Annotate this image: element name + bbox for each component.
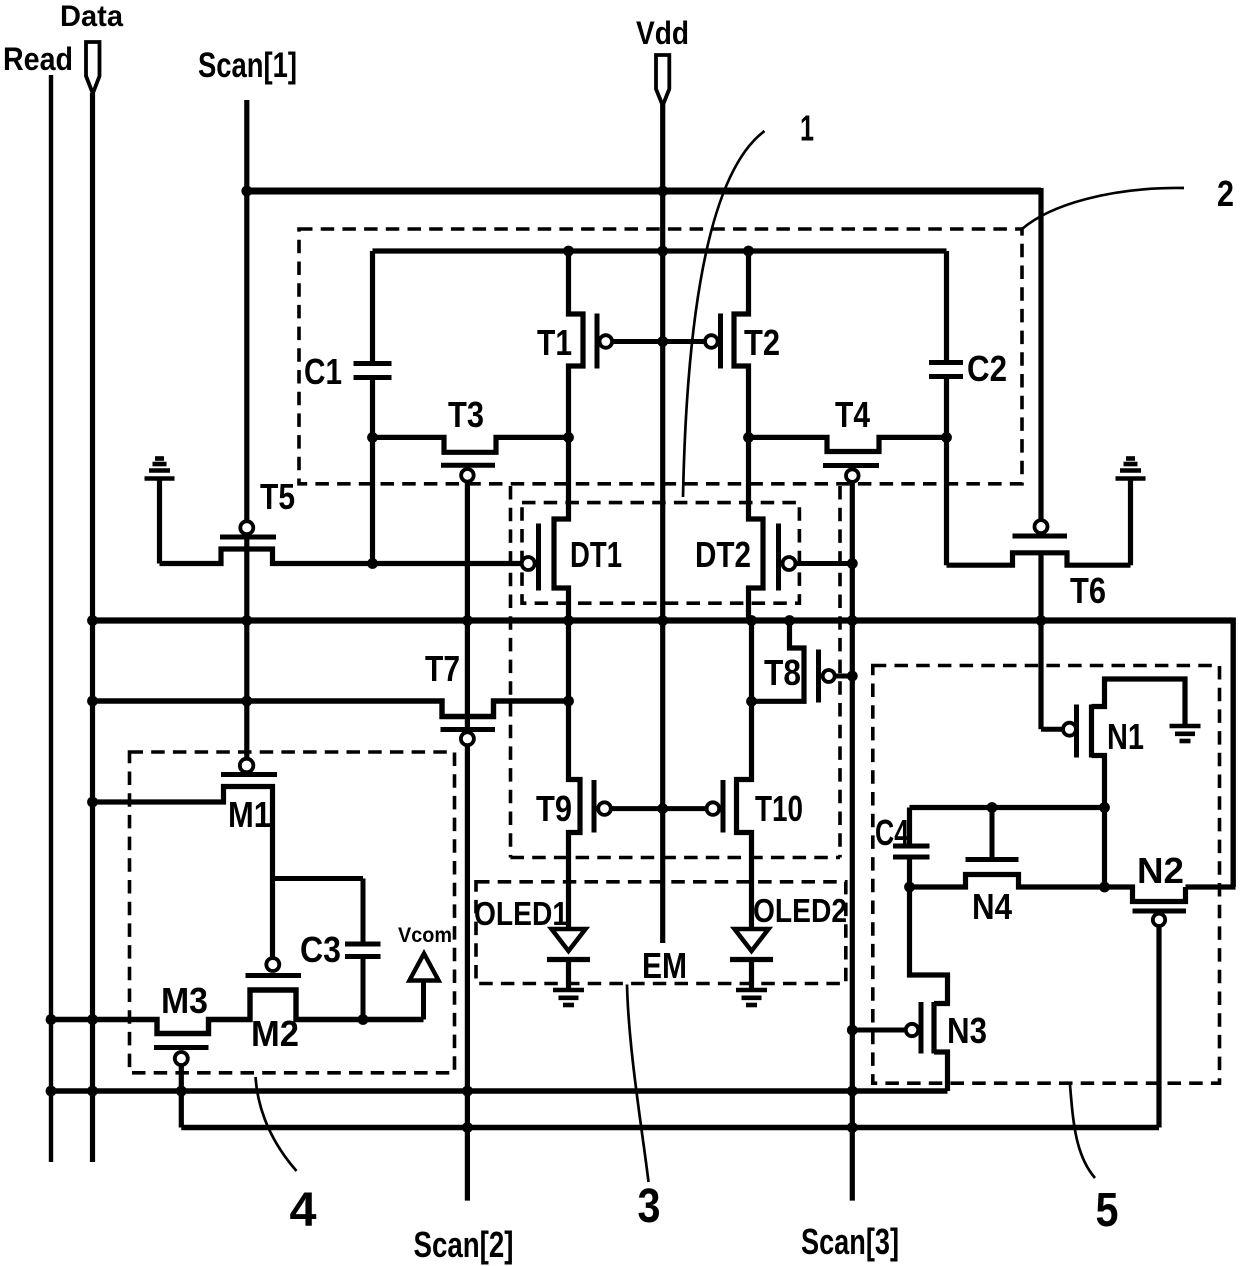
capacitor C4 bbox=[893, 844, 930, 849]
transistor T6 gate circle bbox=[1035, 520, 1048, 533]
node junction M row x Data bbox=[87, 1014, 98, 1025]
svg-text:DT1: DT1 bbox=[570, 534, 622, 575]
svg-text:C2: C2 bbox=[967, 348, 1007, 389]
wire Scan[1] vertical upper segment bbox=[244, 100, 249, 522]
transistor M2 gate bbox=[266, 958, 279, 971]
wire left ground stem bbox=[157, 481, 162, 564]
node junction bus1 x Data bbox=[87, 615, 98, 626]
node junction M1 lead x Data bbox=[87, 797, 98, 808]
svg-text:Scan[2]: Scan[2] bbox=[414, 1224, 514, 1265]
transistor N3 gate lead bbox=[852, 1028, 906, 1033]
wire right vertical from top rail to T6 gate bbox=[1038, 188, 1043, 520]
wire T1-T2 gate row bbox=[612, 339, 705, 344]
node junction rail1 x Data bbox=[87, 1086, 98, 1097]
node junction Scan[1] x top rail bbox=[241, 186, 252, 197]
transistor M3 gate bbox=[154, 1045, 209, 1050]
transistor T3 gate bbox=[441, 463, 495, 468]
transistor T4 gate bbox=[823, 463, 879, 468]
transistor T8 bbox=[752, 621, 805, 702]
wire C1 bottom to T5 row bbox=[370, 378, 375, 566]
dashed box block 3 right edge bbox=[838, 486, 842, 858]
wire Vdd top rail bbox=[244, 188, 1041, 195]
svg-text:3: 3 bbox=[638, 1180, 661, 1233]
wire first horizontal bus bbox=[93, 617, 1234, 623]
node junction Vdd on top line bbox=[657, 246, 668, 257]
transistor N1 channel bbox=[1089, 705, 1094, 758]
node junction N1 source x N row bbox=[1099, 882, 1110, 893]
svg-text:T10: T10 bbox=[755, 788, 803, 829]
svg-text:Scan[3]: Scan[3] bbox=[801, 1221, 899, 1262]
transistor T4 channel row bbox=[749, 437, 947, 451]
dashed box around OLED1 OLED2 bbox=[476, 882, 846, 984]
svg-text:1: 1 bbox=[800, 108, 814, 149]
svg-text:N3: N3 bbox=[947, 1010, 987, 1051]
transistor T5 gate bbox=[220, 535, 276, 540]
capacitor C3 bbox=[345, 942, 381, 947]
terminal Vdd input pennant bbox=[656, 55, 669, 106]
transistor T1 bbox=[569, 251, 584, 437]
node junction bus1 x DT1 leg bbox=[563, 615, 574, 626]
node junction gates x Vdd line bbox=[657, 336, 668, 347]
wire Data vertical line bbox=[90, 93, 95, 1162]
node junction bus1 x EM bbox=[657, 615, 668, 626]
svg-text:OLED2: OLED2 bbox=[753, 892, 847, 929]
ground under OLED1 bbox=[553, 988, 584, 993]
svg-text:C4: C4 bbox=[875, 812, 909, 853]
node junction bus1 x T6 leg bbox=[1036, 615, 1047, 626]
diode OLED2 bbox=[735, 929, 769, 951]
svg-text:C1: C1 bbox=[304, 351, 342, 392]
dashed box block 3 left edge bbox=[509, 486, 513, 858]
svg-text:M3: M3 bbox=[161, 980, 208, 1021]
wire Read vertical line bbox=[49, 75, 53, 1162]
svg-text:T5: T5 bbox=[260, 476, 295, 517]
wire M row with M3 and M2 channels bbox=[51, 990, 424, 1034]
node junction T9/T10 gates x EM line bbox=[657, 803, 668, 814]
node junction bus2 x T9 branch bbox=[563, 696, 574, 707]
leader line for label 5 bbox=[1070, 1085, 1095, 1178]
wire T6 to right ground stem bbox=[1128, 481, 1133, 566]
ground at N1 bbox=[1170, 724, 1201, 729]
node junction N1 source x C4 row bbox=[1099, 802, 1110, 813]
svg-text:Vcom: Vcom bbox=[398, 924, 452, 947]
node junction bus1 x Scan[1] bbox=[241, 615, 252, 626]
wire T8 gate lead bbox=[835, 674, 853, 679]
dashed box block 2 bbox=[299, 229, 1022, 484]
node junction N4 gate x C4 row bbox=[987, 802, 998, 813]
ground under OLED2 bbox=[736, 988, 767, 993]
wire C3 bottom lead bbox=[361, 957, 366, 1020]
node junction rail1 x Scan[2] bbox=[462, 1086, 473, 1097]
wire DT2 gate lead to Scan[3] bbox=[796, 561, 853, 566]
svg-text:4: 4 bbox=[290, 1184, 317, 1237]
transistor T5 channel row bbox=[160, 549, 522, 564]
dashed box block 1 around DT1 DT2 bbox=[522, 503, 799, 604]
node junction bus1 x DT2 leg bbox=[746, 615, 757, 626]
node junction bus1 x T8 stub bbox=[784, 615, 795, 626]
wire right edge to N2 lead bbox=[1186, 884, 1236, 889]
wire C1 top branch bbox=[370, 251, 375, 364]
node junction C2/T4 row bbox=[941, 432, 952, 443]
node junction rail2 x Scan[3] bbox=[847, 1122, 858, 1133]
svg-text:T2: T2 bbox=[744, 322, 780, 363]
wire right edge vertical of bus bbox=[1230, 618, 1235, 888]
terminal Vcom bbox=[421, 981, 426, 1020]
wire inner block top line bbox=[373, 248, 947, 253]
wire lower rail 1 bbox=[51, 1088, 948, 1093]
transistor N1 gate bbox=[1063, 723, 1076, 736]
capacitor C1 bbox=[354, 361, 392, 366]
svg-text:T7: T7 bbox=[425, 648, 460, 689]
ground chassis left bbox=[145, 476, 175, 481]
wire T6 center down to N1 gate bbox=[1038, 553, 1043, 729]
wire C3 top lead bbox=[361, 879, 366, 945]
transistor T7 gate bbox=[441, 727, 496, 732]
wire C4 top row bbox=[910, 805, 1105, 810]
node junction T8 source x T10 branch bbox=[746, 696, 757, 707]
svg-text:EM: EM bbox=[642, 945, 687, 986]
transistor T10 bbox=[737, 621, 752, 930]
node junction Vdd x top rail bbox=[657, 186, 668, 197]
transistor N3 gate bar bbox=[919, 1002, 924, 1054]
svg-text:T6: T6 bbox=[1070, 570, 1106, 611]
node junction M row x Read bbox=[46, 1014, 57, 1025]
svg-text:T4: T4 bbox=[835, 394, 870, 435]
wire M1 drain branch to C3 bbox=[273, 876, 364, 881]
wire Scan[1] vertical through T5 down to M1 gate bbox=[244, 534, 249, 759]
transistor T6 gate bar bbox=[1013, 534, 1068, 539]
transistor N4 gate bbox=[990, 808, 995, 860]
leader line for label 4 bbox=[256, 1077, 297, 1171]
leader line for label 1 bbox=[683, 131, 765, 497]
transistor DT2 bbox=[749, 437, 764, 620]
svg-text:5: 5 bbox=[1096, 1184, 1119, 1237]
svg-text:C3: C3 bbox=[300, 929, 341, 970]
svg-text:N2: N2 bbox=[1137, 850, 1184, 891]
transistor T6 channel row bbox=[947, 553, 1131, 565]
svg-text:T8: T8 bbox=[764, 652, 801, 693]
svg-text:DT2: DT2 bbox=[695, 534, 751, 575]
transistor T9 bbox=[569, 621, 581, 930]
ground chassis right bbox=[1116, 476, 1146, 481]
node junction T1 drain on top line bbox=[563, 246, 574, 257]
wire Scan[2] vertical bbox=[465, 481, 470, 732]
svg-text:N1: N1 bbox=[1107, 716, 1144, 757]
node junction C1/T3 row bbox=[367, 432, 378, 443]
terminal Data input pennant bbox=[86, 42, 100, 94]
wire N1 gate lead bbox=[1041, 727, 1063, 732]
svg-text:Scan[1]: Scan[1] bbox=[198, 46, 297, 85]
transistor T2 bbox=[734, 251, 749, 437]
svg-text:N4: N4 bbox=[972, 886, 1012, 927]
svg-text:OLED1: OLED1 bbox=[474, 895, 568, 932]
node junction rail1 x M3 stem bbox=[176, 1086, 187, 1097]
diode OLED1 bbox=[552, 929, 586, 951]
svg-text:T1: T1 bbox=[537, 322, 572, 363]
node junction DT2 gate x Scan[3] bbox=[847, 558, 858, 569]
svg-text:T3: T3 bbox=[448, 394, 484, 435]
wire N row with N4 and N2 channels bbox=[910, 875, 1186, 902]
transistor N2 gate bbox=[1133, 909, 1187, 914]
node junction C3 x M row bbox=[358, 1014, 369, 1025]
wire C4 bottom lead bbox=[907, 857, 912, 887]
transistor M1 channel bbox=[93, 787, 273, 958]
wire T9-T10 gate row bbox=[611, 806, 707, 811]
node junction T2 source x T4 row bbox=[743, 432, 754, 443]
wire C4 top lead bbox=[907, 808, 912, 847]
node junction C4 x N row bbox=[904, 882, 915, 893]
node junction bus1 x Scan[2] bbox=[462, 615, 473, 626]
wire lower rail 2 bbox=[181, 1125, 1159, 1130]
node junction N3 gate x Scan[3] bbox=[847, 1025, 858, 1036]
wire C2 bottom down to T6 row bbox=[944, 377, 949, 566]
svg-text:Data: Data bbox=[60, 0, 123, 33]
node junction bus2 x Data bbox=[87, 696, 98, 707]
svg-text:M1: M1 bbox=[228, 794, 271, 835]
transistor N3 channel bbox=[931, 1002, 936, 1054]
leader line for label 2 bbox=[1022, 188, 1184, 229]
node junction C1 branch x T5 row bbox=[367, 558, 378, 569]
capacitor C2 bbox=[929, 360, 963, 365]
svg-text:2: 2 bbox=[1217, 173, 1234, 214]
transistor M1 gate bbox=[240, 759, 254, 773]
wire Scan[3] vertical bbox=[850, 482, 855, 1201]
wire C2 top branch bbox=[944, 251, 949, 363]
node junction T8 gate x Scan[3] bbox=[847, 671, 858, 682]
svg-text:Vdd: Vdd bbox=[636, 15, 689, 51]
wire M3 gate stem down to lower rail bbox=[179, 1065, 184, 1128]
node junction bus1 x Scan[3] bbox=[847, 615, 858, 626]
dashed box block 4 bbox=[130, 752, 455, 1073]
node junction bus2 x Scan[1] bbox=[241, 696, 252, 707]
svg-text:M2: M2 bbox=[251, 1013, 299, 1054]
svg-text:Read: Read bbox=[3, 41, 73, 77]
wire Vdd / EM center vertical line bbox=[660, 104, 665, 943]
wire N2 gate stem down to lower rail bbox=[1156, 926, 1161, 1128]
transistor DT1 bbox=[554, 437, 569, 620]
transistor T3 channel row bbox=[373, 437, 569, 452]
dashed box block 3 bottom edge bbox=[511, 856, 841, 860]
leader line for label 3 bbox=[627, 985, 649, 1183]
svg-text:T9: T9 bbox=[536, 788, 572, 829]
node junction T1 source x T3 row bbox=[563, 432, 574, 443]
node junction T2 drain on top line bbox=[743, 246, 754, 257]
wire second bus with transistor T7 channel bbox=[93, 701, 569, 717]
dashed box block 5 bbox=[873, 666, 1220, 1084]
node junction rail1 x Scan[3] bbox=[847, 1086, 858, 1097]
node junction rail1 x Read bbox=[46, 1086, 57, 1097]
transistor N1 source lead bbox=[1092, 756, 1105, 888]
node junction rail2 x Scan[2] bbox=[462, 1122, 473, 1133]
